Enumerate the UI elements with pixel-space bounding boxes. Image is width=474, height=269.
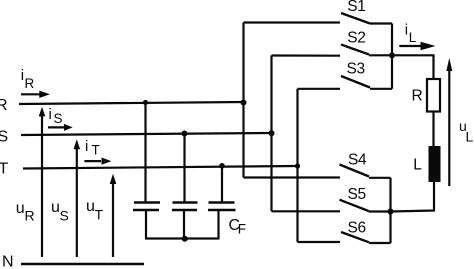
- svg-text:L: L: [466, 129, 474, 145]
- svg-text:S: S: [60, 208, 69, 224]
- svg-text:S6: S6: [348, 220, 366, 237]
- svg-text:R: R: [25, 76, 35, 91]
- svg-text:N: N: [2, 254, 14, 269]
- svg-text:R: R: [0, 97, 8, 114]
- svg-text:R: R: [25, 208, 35, 224]
- svg-text:L: L: [413, 157, 422, 174]
- svg-text:T: T: [95, 206, 104, 222]
- svg-text:u: u: [16, 200, 25, 217]
- svg-text:i: i: [85, 138, 88, 155]
- svg-text:S1: S1: [347, 0, 365, 15]
- svg-text:S: S: [0, 129, 8, 146]
- svg-text:S: S: [54, 111, 63, 126]
- svg-text:L: L: [409, 30, 417, 45]
- svg-text:T: T: [92, 143, 100, 158]
- svg-text:S3: S3: [347, 61, 365, 78]
- svg-text:i: i: [49, 106, 52, 123]
- svg-text:F: F: [238, 222, 246, 237]
- svg-text:R: R: [412, 88, 423, 105]
- svg-text:S4: S4: [348, 152, 367, 169]
- svg-text:i: i: [405, 22, 408, 39]
- svg-text:S5: S5: [348, 186, 366, 203]
- svg-text:S2: S2: [347, 30, 365, 47]
- svg-text:T: T: [0, 161, 9, 178]
